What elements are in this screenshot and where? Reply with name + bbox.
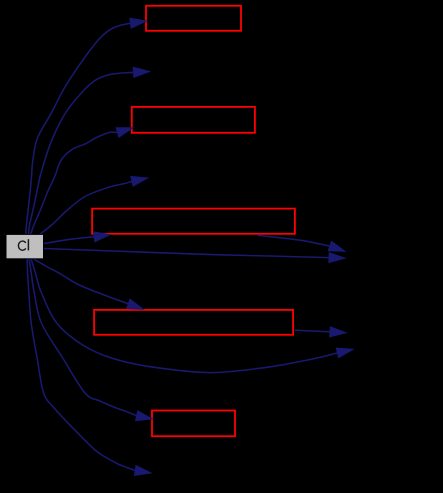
wire Cl->R3 [44,232,110,244]
wire Cl->R4 [33,259,143,310]
node R4 [94,310,293,335]
wire Cl->n9 [27,259,151,476]
node R1 [146,6,241,31]
wire Cl->n4 [40,176,148,234]
wire Cl->R2 [31,128,133,235]
wire Cl->n8 [31,259,353,373]
wire R3->n6 [258,235,346,251]
wire Cl->R5 [29,259,152,421]
node R2 [132,107,255,133]
node R3 [92,209,295,234]
wire Cl->n6 [44,249,345,263]
node Cl [6,234,44,258]
wire R4->n8 [295,327,347,337]
node R5 [152,411,235,437]
wire Cl->n2 [29,67,150,234]
wire Cl->R1 [26,18,146,234]
